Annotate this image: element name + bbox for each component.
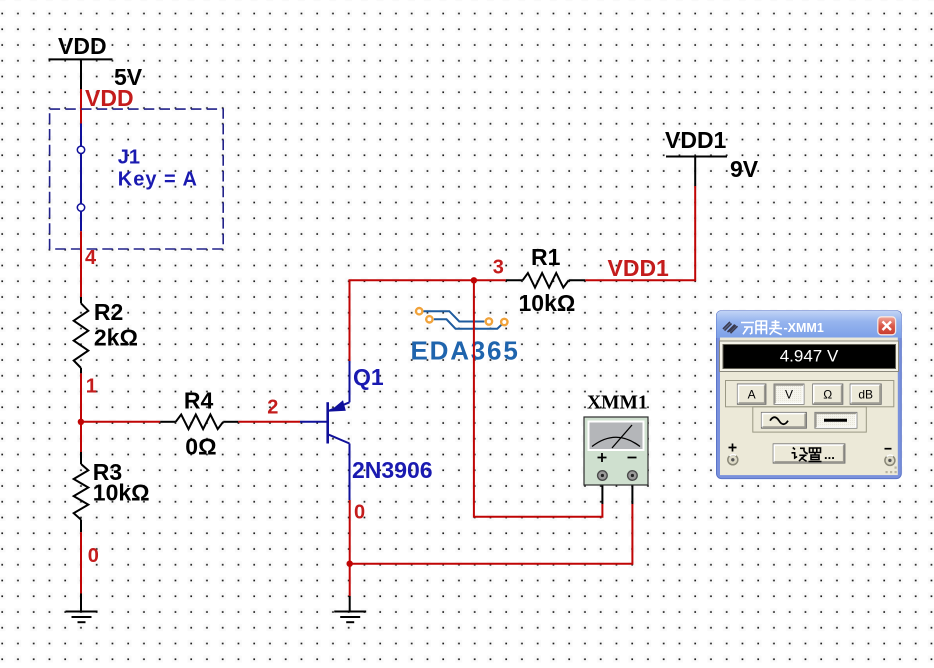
svg-text:3: 3: [493, 257, 504, 279]
svg-text:VDD1: VDD1: [665, 127, 727, 153]
button A: [737, 384, 766, 404]
button dB: [850, 384, 881, 404]
svg-text:-XMM1: -XMM1: [784, 321, 824, 335]
button 设置...: [773, 444, 845, 463]
resize grip: [886, 467, 897, 474]
wire J1 to R2 (net 4): [80, 231, 82, 297]
window icon: [723, 322, 738, 333]
power symbol VDD: [49, 33, 113, 89]
wire VDD to J1: [80, 89, 82, 124]
EDA365 logo traces: [424, 311, 505, 329]
svg-text:1: 1: [86, 375, 97, 397]
svg-text:VDD1: VDD1: [608, 255, 670, 281]
svg-text:0Ω: 0Ω: [185, 434, 216, 460]
svg-text:Ω: Ω: [823, 388, 832, 402]
resistor R1: [506, 273, 585, 288]
wire net 0 to XMM1 minus: [350, 504, 633, 564]
svg-text:10kΩ: 10kΩ: [93, 479, 150, 505]
svg-text:0: 0: [88, 545, 99, 567]
multimeter icon XMM1: [584, 417, 648, 485]
svg-text:2: 2: [267, 397, 278, 419]
window body: [720, 338, 898, 476]
svg-text:10kΩ: 10kΩ: [519, 290, 576, 316]
terminal socket plus: [728, 455, 738, 465]
svg-text:XMM1: XMM1: [587, 393, 648, 414]
wire Q1 collector to ground (net 0): [349, 500, 351, 596]
wire node 3 to XMM1 plus: [474, 280, 603, 516]
ground (center): [334, 612, 366, 623]
button Ω: [813, 384, 843, 404]
wire R2 to node 1: [80, 373, 82, 452]
power symbol VDD1: [665, 127, 727, 186]
svg-text:0: 0: [354, 502, 365, 524]
wire R4 to Q1 base (net 2): [238, 421, 300, 423]
svg-text:VDD: VDD: [85, 85, 134, 111]
svg-text:9V: 9V: [730, 156, 759, 182]
group frame (A V Ω dB): [726, 381, 894, 407]
terminal minus label: [885, 448, 892, 450]
wire Q1 emitter to node 3: [350, 280, 474, 361]
svg-text:...: ...: [824, 447, 835, 462]
junction node 1: [78, 419, 84, 425]
wire node 3 to R1: [474, 279, 506, 281]
resistor R4: [160, 415, 238, 430]
junction node 3: [471, 277, 477, 283]
svg-text:A: A: [748, 388, 756, 402]
button V (pressed): [774, 384, 804, 404]
svg-text:R1: R1: [531, 244, 561, 270]
svg-text:4.947 V: 4.947 V: [780, 346, 839, 365]
svg-text:dB: dB: [858, 388, 873, 402]
junction node 0: [347, 561, 353, 567]
meter display: [720, 341, 899, 372]
multimeter window XMM1: [717, 311, 902, 479]
svg-text:2kΩ: 2kΩ: [94, 324, 138, 350]
group frame (AC/DC): [753, 407, 867, 432]
wire R1 to VDD1: [585, 186, 695, 280]
button AC (sine): [761, 412, 806, 428]
wire R3 to ground (net 0): [80, 532, 82, 593]
resistor R3: [74, 452, 89, 532]
window title bar: [717, 311, 902, 338]
svg-text:EDA365: EDA365: [411, 336, 520, 366]
svg-text:R2: R2: [94, 299, 123, 325]
svg-text:R4: R4: [184, 387, 214, 413]
terminal plus label: [729, 444, 737, 452]
terminal socket minus: [885, 455, 895, 465]
svg-text:VDD: VDD: [58, 33, 107, 59]
button DC (pressed): [815, 412, 857, 428]
window close button: [878, 317, 896, 335]
svg-text:V: V: [785, 388, 793, 402]
wire node 1 to R4: [81, 421, 160, 423]
resistor R2: [74, 297, 89, 373]
ground (left): [66, 612, 98, 623]
switch J1 selection box: [50, 109, 224, 249]
svg-text:4: 4: [85, 247, 97, 269]
transistor Q1 (PNP 2N3906): [300, 361, 350, 500]
XMM1 pin stubs: [602, 481, 632, 505]
svg-text:Q1: Q1: [353, 364, 384, 390]
svg-text:2N3906: 2N3906: [352, 457, 433, 483]
window title 万用表-XMM1: [741, 320, 782, 335]
EDA365 logo pads: [416, 308, 507, 325]
switch J1: [77, 124, 84, 232]
svg-text:J1: J1: [118, 147, 140, 169]
svg-text:Key = A: Key = A: [118, 168, 198, 190]
